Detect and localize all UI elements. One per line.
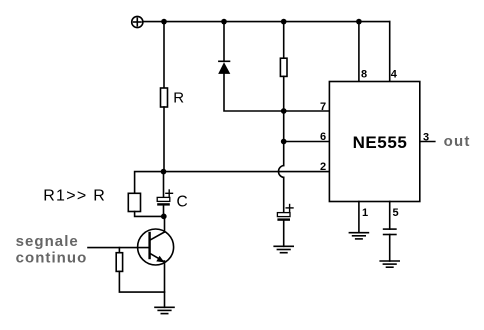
wire diode top [223,22,225,62]
node: top rail / R3 junction [281,19,287,25]
node: C / R1 / collector junction [161,214,167,220]
svg-text:3: 3 [423,132,429,144]
wire R bottom [163,107,165,172]
wire emitter to ground [164,261,166,307]
wire pin1 to ground [358,202,360,233]
wire hop bottom to C2 [283,177,285,212]
wire pin3 [420,141,435,143]
resistor R1 [128,193,140,211]
node: pin6 junction [281,139,287,145]
resistor R2 [116,253,122,272]
ground under pin1 [349,233,368,239]
wire R3 top [283,22,285,59]
wire base [88,247,150,249]
wire R2 top [118,248,120,253]
svg-text:R: R [173,89,184,106]
wire C2 to ground [283,221,285,247]
wire R2 bottom [119,271,164,292]
wire C top [163,172,165,198]
wire C bottom to collector junction [163,206,165,217]
svg-text:R1>> R: R1>> R [43,188,106,205]
svg-text:C: C [177,194,188,211]
capacitor C2 [277,205,293,221]
wire pin2 [164,171,330,173]
node: pin7 junction [281,108,287,114]
wire R top [163,22,165,88]
ground under transistor [155,307,174,313]
transistor Q1 [138,229,174,265]
wire diode to pin7 [224,74,329,111]
resistor R3 [280,58,287,76]
svg-text:8: 8 [361,68,367,80]
svg-text:7: 7 [320,101,326,113]
wire hop over pin2 [278,166,283,178]
wire pin4 drop [389,22,391,82]
node: pin2 / R / R1 / C junction [161,169,167,175]
svg-text:out: out [444,133,471,150]
wire R1 branch top [135,172,164,194]
svg-text:segnale: segnale [16,233,79,250]
ground under C3 [380,261,399,267]
svg-text:continuo: continuo [16,250,88,267]
node: top rail / R junction [161,19,167,25]
svg-text:5: 5 [393,207,399,219]
capacitor C [157,190,172,206]
wire C3 to ground [389,235,391,262]
wire top rail [143,21,390,23]
node: top rail / diode junction [221,19,227,25]
svg-text:6: 6 [320,131,326,143]
wire collector [164,216,166,232]
svg-text:NE555: NE555 [353,133,408,152]
svg-text:2: 2 [320,161,326,173]
wire pin8 drop [358,22,360,82]
diode D1 [218,61,230,74]
wire pin5 to C3 [389,202,391,230]
wire R3 bottom to hop [283,76,285,165]
power supply symbol V+ [132,16,143,27]
resistor R [161,88,168,107]
svg-text:4: 4 [391,68,398,80]
wire pin6 [284,141,330,143]
wire R1 bottom [135,212,164,217]
NE555 box U1 [329,82,419,202]
node: top rail / pin8 junction [356,19,362,25]
ground under C2 [274,246,293,252]
svg-text:1: 1 [362,207,368,219]
capacitor C3 [384,229,396,234]
